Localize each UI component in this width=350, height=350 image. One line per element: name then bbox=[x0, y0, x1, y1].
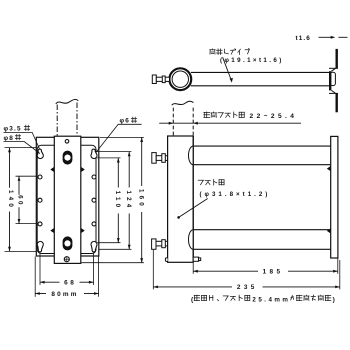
svg-text:124: 124 bbox=[125, 191, 132, 211]
svg-text:φ3.5: φ3.5 bbox=[4, 126, 22, 133]
svg-text:68: 68 bbox=[64, 280, 76, 287]
svg-text:235: 235 bbox=[237, 284, 258, 291]
svg-text:160: 160 bbox=[137, 189, 144, 209]
svg-text:): ) bbox=[333, 296, 335, 303]
svg-text:110: 110 bbox=[114, 191, 121, 211]
svg-text:140: 140 bbox=[7, 190, 14, 210]
svg-text:60: 60 bbox=[16, 195, 23, 207]
svg-text:(φ19.1×t1.6): (φ19.1×t1.6) bbox=[220, 57, 284, 64]
svg-text:φ8: φ8 bbox=[4, 135, 15, 142]
svg-text:25.4mm: 25.4mm bbox=[252, 296, 290, 303]
svg-text:185: 185 bbox=[263, 269, 284, 276]
svg-text:22~25.4: 22~25.4 bbox=[250, 113, 298, 120]
svg-text:t1.6: t1.6 bbox=[296, 35, 311, 42]
svg-text:(φ31.8×t1.2): (φ31.8×t1.2) bbox=[200, 191, 271, 198]
svg-text:φ6: φ6 bbox=[120, 118, 131, 125]
svg-text:80mm: 80mm bbox=[51, 291, 78, 298]
